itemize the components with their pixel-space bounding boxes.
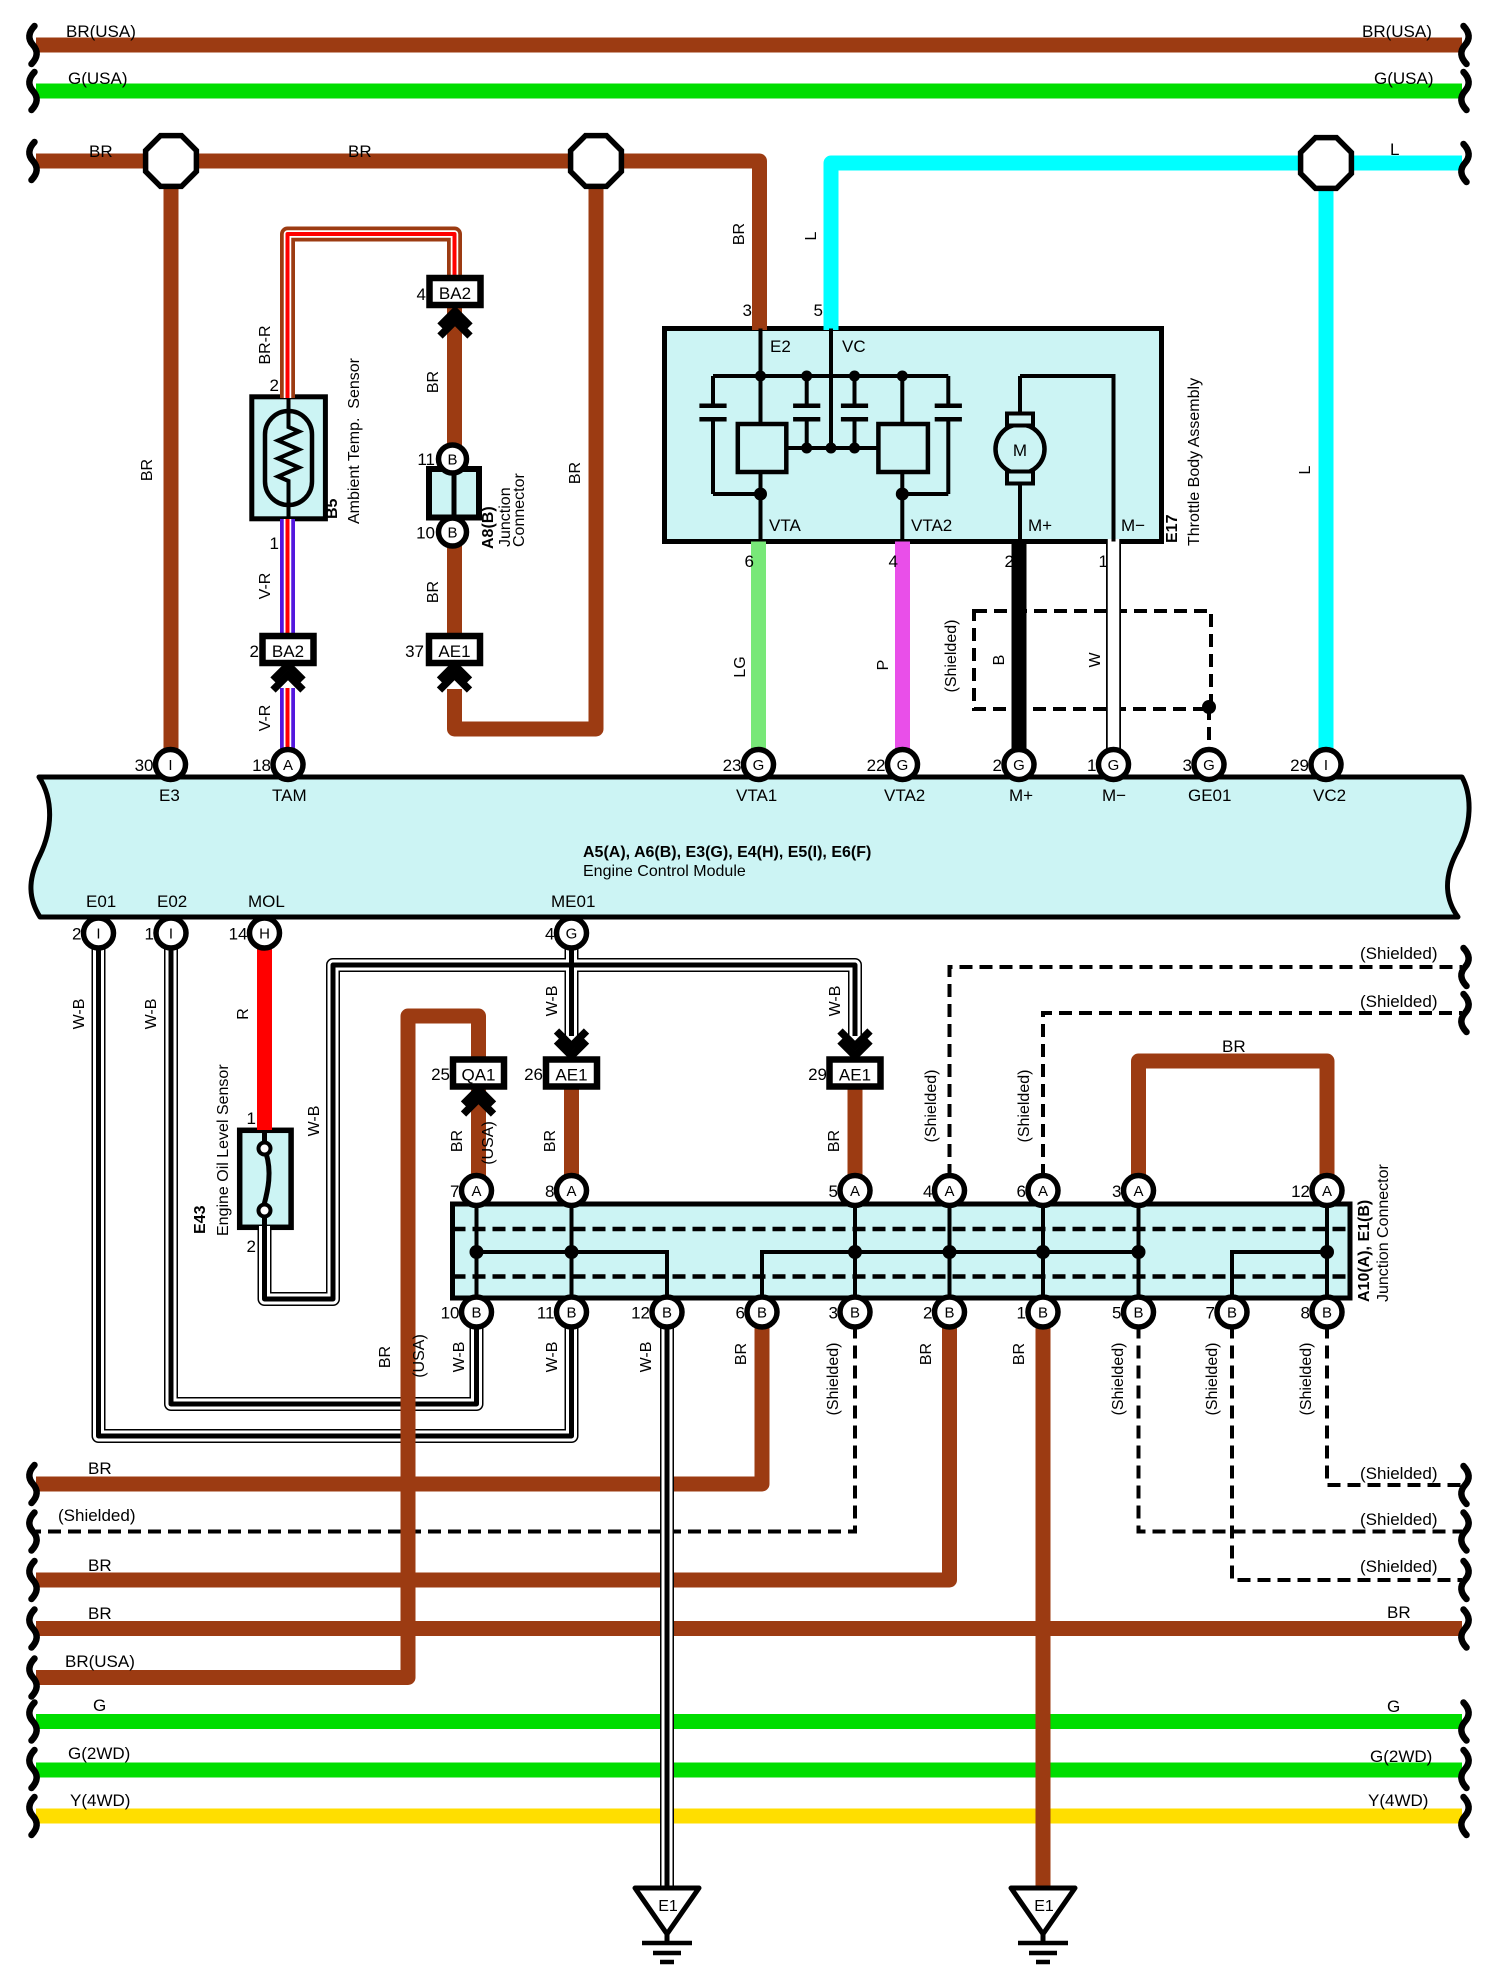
svg-text:L: L bbox=[803, 231, 820, 240]
svg-text:P: P bbox=[875, 660, 892, 671]
svg-text:5: 5 bbox=[1112, 1304, 1121, 1323]
svg-text:G(USA): G(USA) bbox=[68, 69, 128, 88]
svg-text:I: I bbox=[1324, 757, 1328, 774]
octagon splice node on BR bus (middle) bbox=[571, 136, 622, 187]
junction bottom pin 2 (B) bbox=[935, 1297, 965, 1327]
svg-text:Engine Control Module: Engine Control Module bbox=[583, 863, 746, 880]
svg-text:A: A bbox=[1038, 1183, 1048, 1200]
junction top pin 4 (A) bbox=[935, 1176, 965, 1206]
junction top pin 8 (A) bbox=[557, 1176, 587, 1206]
svg-text:11: 11 bbox=[417, 450, 435, 469]
wire Y(4WD) bus bbox=[36, 1809, 1462, 1824]
svg-text:W-B: W-B bbox=[71, 999, 88, 1030]
wire BR from AE1 29 down to junction 5A bbox=[848, 1086, 863, 1177]
svg-text:VTA2: VTA2 bbox=[884, 786, 925, 805]
wire break marks left edge bbox=[29, 26, 36, 64]
shielded dashed wire from 6A to right edge bbox=[1043, 1013, 1462, 1177]
connector AE1 pin 29 bbox=[830, 1060, 881, 1087]
svg-text:22: 22 bbox=[867, 756, 886, 775]
svg-text:B: B bbox=[850, 1305, 860, 1322]
svg-text:G: G bbox=[897, 757, 909, 774]
throttle body assembly E17 box bbox=[665, 329, 1162, 542]
svg-text:QA1: QA1 bbox=[461, 1066, 495, 1085]
VTA2 element top line bbox=[900, 376, 904, 424]
svg-text:M+: M+ bbox=[1028, 516, 1052, 535]
sensor element box 1 (VTA) bbox=[738, 424, 787, 472]
svg-text:W-B: W-B bbox=[143, 999, 160, 1030]
svg-text:A: A bbox=[283, 757, 293, 774]
svg-text:4: 4 bbox=[545, 925, 554, 944]
junction connector internal shield dashed lines bbox=[453, 1227, 1351, 1232]
svg-text:G(2WD): G(2WD) bbox=[1370, 1747, 1432, 1766]
svg-text:M: M bbox=[1013, 441, 1027, 460]
svg-text:BA2: BA2 bbox=[439, 284, 471, 303]
svg-text:VC: VC bbox=[842, 337, 866, 356]
svg-text:8: 8 bbox=[545, 1182, 554, 1201]
wire W-B from ECM E02 to junction 10B bbox=[171, 946, 477, 1404]
svg-text:B: B bbox=[566, 1305, 576, 1322]
svg-text:VC2: VC2 bbox=[1313, 786, 1346, 805]
junction top pin 6 (A) bbox=[1028, 1176, 1058, 1206]
ECM top pin 3 (G) bbox=[1194, 750, 1224, 780]
svg-text:AE1: AE1 bbox=[555, 1066, 587, 1085]
svg-text:G(2WD): G(2WD) bbox=[68, 1744, 130, 1763]
svg-text:BR: BR bbox=[88, 1459, 112, 1478]
junction connector internal pin lines bbox=[475, 1206, 479, 1296]
svg-text:3: 3 bbox=[743, 301, 752, 320]
svg-text:30: 30 bbox=[135, 756, 154, 775]
svg-text:W: W bbox=[1087, 652, 1104, 668]
wire BR(USA) bottom bus up through QA1 loop to QA1 25 bbox=[36, 1016, 479, 1678]
wire L cyan from corner to right edge through octagon bbox=[831, 163, 1462, 330]
junction internal bus dots bbox=[470, 1245, 484, 1259]
svg-text:7: 7 bbox=[1206, 1304, 1215, 1323]
svg-text:M−: M− bbox=[1102, 786, 1126, 805]
ECM top pin 29 (I) bbox=[1311, 750, 1341, 780]
wire LG from throttle body VTA pin 6 to ECM VTA1 pin 23 bbox=[751, 542, 766, 752]
svg-text:2: 2 bbox=[1005, 552, 1014, 571]
ground E1 (right) bbox=[1041, 1930, 1046, 1944]
svg-text:BR: BR bbox=[542, 1130, 559, 1152]
svg-text:E3: E3 bbox=[159, 786, 180, 805]
svg-text:2: 2 bbox=[923, 1304, 932, 1323]
svg-text:2: 2 bbox=[270, 376, 279, 395]
wire P from throttle body VTA2 pin 4 to ECM VTA2 pin 22 bbox=[895, 542, 910, 752]
svg-text:29: 29 bbox=[808, 1065, 827, 1084]
svg-text:E43: E43 bbox=[192, 1205, 209, 1234]
svg-text:B: B bbox=[471, 1305, 481, 1322]
junction bottom pin 1 (B) bbox=[1028, 1297, 1058, 1327]
svg-text:2: 2 bbox=[250, 642, 259, 661]
svg-text:M−: M− bbox=[1121, 516, 1145, 535]
junction connector A10(A), E1(B) box bbox=[453, 1204, 1351, 1298]
junction top pin 3 (A) bbox=[1124, 1176, 1154, 1206]
E43 oil level switch bbox=[262, 1130, 267, 1145]
svg-text:A: A bbox=[1133, 1183, 1143, 1200]
throttle body internal top bus bbox=[713, 374, 948, 378]
junction internal bus segment 3 (7B to 12A) bbox=[1232, 1252, 1327, 1296]
shielded dashed wire from 5B to right edge bbox=[1139, 1326, 1463, 1532]
svg-text:W-B: W-B bbox=[827, 986, 844, 1017]
A8 junction pin 10 (B) bbox=[439, 518, 467, 546]
wire G bus bbox=[36, 1714, 1462, 1729]
svg-text:Y(4WD): Y(4WD) bbox=[1368, 1791, 1428, 1810]
junction top pin 12 (A) bbox=[1312, 1176, 1342, 1206]
svg-text:I: I bbox=[168, 757, 172, 774]
ECM top pin 2 (G) bbox=[1004, 750, 1034, 780]
junction internal bus segment 1 (7A,8A to 12B) bbox=[477, 1252, 668, 1296]
svg-text:BR: BR bbox=[826, 1130, 843, 1152]
svg-text:A: A bbox=[944, 1183, 954, 1200]
svg-text:6: 6 bbox=[745, 552, 754, 571]
svg-text:(USA): (USA) bbox=[480, 1121, 497, 1165]
svg-text:(Shielded): (Shielded) bbox=[1360, 992, 1438, 1011]
wire W-B from junction 12B to ground E1 bbox=[660, 1326, 674, 1887]
VTA2 line below element 2 bbox=[900, 472, 904, 542]
svg-text:(Shielded): (Shielded) bbox=[1360, 1510, 1438, 1529]
wire BR from octagon 1 down to ECM E3 pin 30 bbox=[164, 175, 179, 751]
svg-text:6: 6 bbox=[736, 1304, 745, 1323]
shielded dashed wire from 3B to left edge bbox=[36, 1326, 855, 1532]
svg-text:B: B bbox=[757, 1305, 767, 1322]
svg-text:V-R: V-R bbox=[257, 705, 274, 732]
wire BR bridge from junction 3A to 12A bbox=[1139, 1061, 1328, 1177]
svg-text:(Shielded): (Shielded) bbox=[58, 1506, 136, 1525]
svg-text:W-B: W-B bbox=[544, 1342, 561, 1373]
shielded dashed wire from 7B to right edge bbox=[1232, 1326, 1462, 1581]
svg-text:B: B bbox=[1322, 1305, 1332, 1322]
svg-text:BR: BR bbox=[88, 1556, 112, 1575]
throttle motor M bbox=[996, 425, 1045, 474]
svg-text:BR: BR bbox=[1387, 1603, 1411, 1622]
junction internal bus segment 2 (6B to 3A) bbox=[762, 1252, 1139, 1296]
ECM top pin 30 (I) bbox=[156, 750, 186, 780]
svg-text:B: B bbox=[1038, 1305, 1048, 1322]
throttle motor M circuit lines bbox=[1018, 376, 1022, 416]
svg-text:4: 4 bbox=[889, 552, 898, 571]
wire W-B from ECM ME01 branch to oil sensor pin 2 / AE1 26 / AE1 29 bbox=[265, 946, 856, 1299]
svg-text:23: 23 bbox=[723, 756, 742, 775]
svg-text:G(USA): G(USA) bbox=[1374, 69, 1434, 88]
svg-text:BR: BR bbox=[377, 1346, 394, 1368]
svg-text:(Shielded): (Shielded) bbox=[1360, 1464, 1438, 1483]
svg-text:(Shielded): (Shielded) bbox=[1016, 1070, 1033, 1143]
wire BR from A8 junction 10B down to AE1 37 bbox=[447, 545, 462, 636]
shielded dashed wire from 8B to right edge bbox=[1327, 1326, 1462, 1486]
svg-text:BR: BR bbox=[348, 142, 372, 161]
ECM top pin 1 (G) bbox=[1099, 750, 1129, 780]
svg-text:L: L bbox=[1390, 140, 1399, 159]
connector AE1 pin 26 bbox=[546, 1060, 597, 1087]
svg-text:G: G bbox=[1203, 757, 1215, 774]
svg-text:25: 25 bbox=[431, 1065, 450, 1084]
capacitor C2 bbox=[805, 376, 809, 404]
junction bottom pin 10 (B) bbox=[462, 1297, 492, 1327]
svg-text:3: 3 bbox=[1112, 1182, 1121, 1201]
svg-text:BR: BR bbox=[1011, 1343, 1028, 1365]
svg-text:(Shielded): (Shielded) bbox=[1204, 1343, 1221, 1416]
svg-text:8: 8 bbox=[1301, 1304, 1310, 1323]
svg-text:14: 14 bbox=[229, 925, 248, 944]
throttle body internal middle wire bbox=[786, 446, 878, 450]
octagon splice node on L bus (right) bbox=[1301, 138, 1352, 189]
svg-text:26: 26 bbox=[524, 1065, 543, 1084]
junction bottom pin 6 (B) bbox=[747, 1297, 777, 1327]
wire G(2WD) bus bbox=[36, 1763, 1462, 1778]
wire break marks right edge bbox=[1461, 26, 1468, 64]
ambient temp sensor B5 box bbox=[252, 397, 326, 519]
wire BR top bus through octagons, down into throttle body E2 pin 3 bbox=[36, 161, 760, 330]
shielded dashed box around B and W wires bbox=[974, 611, 1211, 709]
junction bottom pin 5 (B) bbox=[1124, 1297, 1154, 1327]
svg-text:E1: E1 bbox=[658, 1898, 678, 1915]
svg-text:TAM: TAM bbox=[272, 786, 307, 805]
connector QA1 pin 25 bbox=[453, 1060, 504, 1087]
junction bottom pin 11 (B) bbox=[557, 1297, 587, 1327]
wire L cyan from octagon down to ECM VC2 pin 29 bbox=[1319, 175, 1334, 751]
junction bottom pin 7 (B) bbox=[1217, 1297, 1247, 1327]
svg-text:E17: E17 bbox=[1164, 514, 1181, 543]
svg-text:W-B: W-B bbox=[638, 1342, 655, 1373]
svg-text:M+: M+ bbox=[1009, 786, 1033, 805]
throttle body internal junction dots bbox=[755, 371, 766, 382]
wire BR from QA1 25 down to junction 7A bbox=[471, 1086, 486, 1177]
ground E1 (left) bbox=[665, 1930, 670, 1944]
svg-text:BR: BR bbox=[449, 1130, 466, 1152]
wire BR from junction 1B down to ground E1 bbox=[1036, 1326, 1051, 1887]
svg-text:B: B bbox=[944, 1305, 954, 1322]
svg-text:(Shielded): (Shielded) bbox=[1360, 944, 1438, 963]
wire BR bus (row 3) full width bbox=[36, 1621, 1462, 1636]
svg-text:G: G bbox=[1387, 1697, 1400, 1716]
svg-text:B5: B5 bbox=[324, 498, 341, 519]
svg-text:BR: BR bbox=[139, 459, 156, 481]
wire BR bus (row 1) to 6B bbox=[36, 1326, 762, 1485]
svg-text:2: 2 bbox=[72, 925, 81, 944]
wire BR from octagon 2 down and left to AE1 37 bbox=[455, 175, 597, 729]
svg-text:(Shielded): (Shielded) bbox=[923, 1070, 940, 1143]
svg-text:3: 3 bbox=[829, 1304, 838, 1323]
svg-text:18: 18 bbox=[252, 756, 271, 775]
wire V-R from BA2 2 down to ECM TAM pin 18 bbox=[280, 688, 295, 751]
svg-text:5: 5 bbox=[829, 1182, 838, 1201]
svg-text:B: B bbox=[1133, 1305, 1143, 1322]
wire BR(USA) top bus bbox=[36, 38, 1462, 53]
svg-text:Ambient Temp. Sensor: Ambient Temp. Sensor bbox=[346, 357, 363, 524]
svg-text:BR: BR bbox=[88, 1604, 112, 1623]
capacitor C4 (right) bbox=[946, 376, 950, 404]
svg-text:29: 29 bbox=[1290, 756, 1309, 775]
svg-text:BR: BR bbox=[731, 223, 748, 245]
svg-text:MOL: MOL bbox=[248, 892, 285, 911]
svg-text:G: G bbox=[753, 757, 765, 774]
svg-text:GE01: GE01 bbox=[1188, 786, 1231, 805]
B5 thermistor resistor zigzag bbox=[278, 398, 299, 519]
svg-text:B: B bbox=[447, 452, 457, 469]
svg-text:BR: BR bbox=[89, 142, 113, 161]
svg-text:Connector: Connector bbox=[511, 473, 528, 547]
svg-text:1: 1 bbox=[1099, 552, 1108, 571]
svg-text:BR(USA): BR(USA) bbox=[1362, 22, 1432, 41]
svg-text:1: 1 bbox=[1087, 756, 1096, 775]
ECM bottom pin 1 (I) bbox=[156, 918, 186, 948]
svg-text:E01: E01 bbox=[86, 892, 116, 911]
capacitor C3 bbox=[853, 376, 857, 404]
ECM top pin 23 (G) bbox=[744, 750, 774, 780]
svg-text:AE1: AE1 bbox=[839, 1066, 871, 1085]
shield drain dot bbox=[1202, 700, 1216, 714]
svg-text:10: 10 bbox=[441, 1304, 460, 1323]
ECM bottom pin 2 (I) bbox=[84, 918, 114, 948]
svg-text:6: 6 bbox=[1017, 1182, 1026, 1201]
svg-text:B: B bbox=[991, 655, 1008, 666]
ECM top pin 22 (G) bbox=[888, 750, 918, 780]
svg-text:B: B bbox=[447, 525, 457, 542]
svg-text:A: A bbox=[566, 1183, 576, 1200]
svg-text:Y(4WD): Y(4WD) bbox=[70, 1791, 130, 1810]
svg-text:R: R bbox=[235, 1008, 252, 1020]
svg-text:E2: E2 bbox=[770, 337, 791, 356]
svg-text:(Shielded): (Shielded) bbox=[825, 1343, 842, 1416]
wire BR bus (row 2) to 2B bbox=[36, 1326, 950, 1581]
svg-text:A8(B): A8(B) bbox=[480, 506, 497, 549]
wire BR from AE1 26 down to junction 8A bbox=[564, 1086, 579, 1177]
wire W-B from ECM E01 to junction 11B bbox=[99, 946, 572, 1436]
sensor element box 2 (VTA2) bbox=[878, 424, 928, 472]
svg-text:I: I bbox=[169, 926, 173, 943]
VTA line below element 1 bbox=[759, 472, 763, 542]
svg-text:A: A bbox=[850, 1183, 860, 1200]
svg-text:LG: LG bbox=[732, 656, 749, 677]
svg-text:BR: BR bbox=[918, 1343, 935, 1365]
svg-text:ME01: ME01 bbox=[551, 892, 595, 911]
svg-text:3: 3 bbox=[1183, 756, 1192, 775]
svg-text:(Shielded): (Shielded) bbox=[1298, 1343, 1315, 1416]
wire V-R from sensor pin 1 down to BA2 pin 2 bbox=[280, 519, 295, 636]
wire BR from BA2 4 down to A8 junction 11B bbox=[447, 307, 462, 446]
shielded dashed drain wire to GE01 bbox=[1207, 707, 1211, 751]
svg-text:G: G bbox=[1013, 757, 1025, 774]
svg-text:37: 37 bbox=[405, 642, 424, 661]
svg-text:1: 1 bbox=[145, 925, 154, 944]
svg-text:1: 1 bbox=[1017, 1304, 1026, 1323]
svg-text:1: 1 bbox=[270, 534, 279, 553]
wire W (white) from throttle body M- to ECM pin 1 bbox=[1106, 542, 1121, 752]
connector BA2 pin 4 bbox=[430, 278, 481, 305]
svg-text:G: G bbox=[566, 926, 578, 943]
junction connector A8(B) box bbox=[429, 469, 479, 518]
svg-text:2: 2 bbox=[247, 1237, 256, 1256]
svg-text:(Shielded): (Shielded) bbox=[943, 620, 960, 693]
svg-text:G: G bbox=[93, 1696, 106, 1715]
A8 junction pin 11 (B) bbox=[439, 445, 467, 473]
ECM bottom pin 4 (G) bbox=[557, 918, 587, 948]
svg-text:BR: BR bbox=[425, 581, 442, 603]
svg-text:E02: E02 bbox=[157, 892, 187, 911]
svg-text:5: 5 bbox=[814, 301, 823, 320]
svg-text:BR(USA): BR(USA) bbox=[66, 22, 136, 41]
svg-text:(Shielded): (Shielded) bbox=[1360, 1557, 1438, 1576]
svg-text:B: B bbox=[1227, 1305, 1237, 1322]
shielded dashed wire from 4A to right edge bbox=[950, 967, 1463, 1177]
junction bottom pin 3 (B) bbox=[840, 1297, 870, 1327]
svg-text:VTA1: VTA1 bbox=[736, 786, 777, 805]
svg-text:4: 4 bbox=[417, 285, 426, 304]
svg-text:4: 4 bbox=[923, 1182, 932, 1201]
svg-text:H: H bbox=[259, 926, 270, 943]
svg-text:W-B: W-B bbox=[306, 1106, 323, 1137]
svg-text:A: A bbox=[471, 1183, 481, 1200]
svg-text:E1: E1 bbox=[1034, 1898, 1054, 1915]
wire G(USA) top bus bbox=[36, 84, 1462, 99]
junction bottom pin 8 (B) bbox=[1312, 1297, 1342, 1327]
svg-text:W-B: W-B bbox=[451, 1342, 468, 1373]
wire R red from ECM MOL pin 14 to oil level sensor pin 1 bbox=[257, 946, 272, 1130]
svg-text:A5(A), A6(B), E3(G), E4(H), E5: A5(A), A6(B), E3(G), E4(H), E5(I), E6(F) bbox=[583, 844, 871, 861]
junction top pin 7 (A) bbox=[462, 1176, 492, 1206]
ECM Engine Control Module band A5(A),A6(B),E3(G),E4(H),E5(I),E6(F) bbox=[31, 777, 1469, 917]
ECM top pin 18 (A) bbox=[273, 750, 303, 780]
svg-text:A10(A), E1(B): A10(A), E1(B) bbox=[1356, 1200, 1373, 1302]
wire B black from throttle body M+ pin 2 to ECM pin 2 bbox=[1012, 542, 1027, 752]
svg-text:W-B: W-B bbox=[544, 986, 561, 1017]
svg-text:12: 12 bbox=[1291, 1182, 1310, 1201]
svg-text:(USA): (USA) bbox=[411, 1334, 428, 1378]
svg-text:11: 11 bbox=[537, 1304, 555, 1323]
svg-text:I: I bbox=[96, 926, 100, 943]
svg-text:AE1: AE1 bbox=[438, 642, 470, 661]
svg-text:Engine Oil Level Sensor: Engine Oil Level Sensor bbox=[215, 1064, 232, 1236]
throttle body internal E2 line bbox=[759, 329, 763, 425]
engine oil level sensor E43 box bbox=[240, 1130, 291, 1227]
ECM bottom pin 14 (H) bbox=[250, 918, 280, 948]
junction bottom pin 12 (B) bbox=[652, 1297, 682, 1327]
svg-text:V-R: V-R bbox=[257, 573, 274, 600]
svg-text:G: G bbox=[1108, 757, 1120, 774]
svg-text:BR: BR bbox=[567, 462, 584, 484]
svg-text:10: 10 bbox=[416, 524, 435, 543]
svg-text:A: A bbox=[1322, 1183, 1332, 1200]
svg-text:BA2: BA2 bbox=[272, 642, 304, 661]
wire BR-R from ambient temp sensor pin 2 up over to BA2 pin 4 bbox=[288, 234, 455, 398]
svg-text:BR: BR bbox=[733, 1343, 750, 1365]
svg-text:B: B bbox=[662, 1305, 672, 1322]
throttle body internal VC line bbox=[829, 329, 833, 449]
capacitor C1 (left) bbox=[711, 376, 715, 404]
connector BA2 pin 2 bbox=[263, 636, 314, 663]
connector AE1 pin 37 bbox=[429, 636, 480, 663]
junction top pin 5 (A) bbox=[840, 1176, 870, 1206]
svg-text:Throttle Body Assembly: Throttle Body Assembly bbox=[1186, 378, 1203, 546]
svg-text:BR: BR bbox=[425, 371, 442, 393]
svg-text:7: 7 bbox=[450, 1182, 459, 1201]
svg-text:BR: BR bbox=[1222, 1037, 1246, 1056]
svg-text:BR(USA): BR(USA) bbox=[65, 1652, 135, 1671]
B5 thermistor stadium bbox=[265, 411, 312, 505]
octagon splice node on BR bus (left) bbox=[146, 136, 197, 187]
svg-text:VTA2: VTA2 bbox=[911, 516, 952, 535]
svg-text:(Shielded): (Shielded) bbox=[1110, 1343, 1127, 1416]
svg-text:BR-R: BR-R bbox=[257, 325, 274, 364]
svg-text:12: 12 bbox=[631, 1304, 650, 1323]
svg-text:VTA: VTA bbox=[769, 516, 801, 535]
svg-text:Junction Connector: Junction Connector bbox=[1375, 1163, 1392, 1302]
svg-text:1: 1 bbox=[247, 1109, 256, 1128]
svg-text:L: L bbox=[1297, 465, 1314, 474]
svg-text:2: 2 bbox=[993, 756, 1002, 775]
